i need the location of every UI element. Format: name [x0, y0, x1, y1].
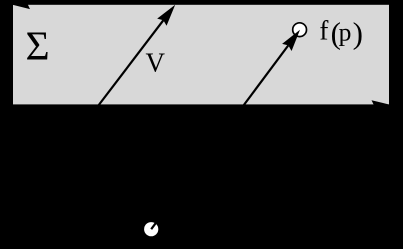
svg-text:f: f: [319, 15, 328, 45]
svg-text:p: p: [339, 18, 352, 47]
svg-text:V: V: [146, 47, 166, 77]
vector arrow V (line): [98, 20, 163, 106]
arrow from p to f(p) (line): [151, 45, 288, 229]
point marker p: white dot: [144, 222, 158, 236]
svg-text:): ): [353, 16, 363, 51]
svg-text:Σ: Σ: [26, 23, 50, 69]
surface band Σ (gray strip): [13, 5, 389, 105]
bottom edge axis arrowhead (right-pointing): [372, 100, 393, 110]
point marker f(p): white circle: [293, 23, 307, 37]
top edge axis arrowhead (left-pointing): [9, 0, 30, 9]
vector arrow V (head): [157, 5, 175, 26]
arrow from p to f(p) (head): [282, 30, 300, 51]
